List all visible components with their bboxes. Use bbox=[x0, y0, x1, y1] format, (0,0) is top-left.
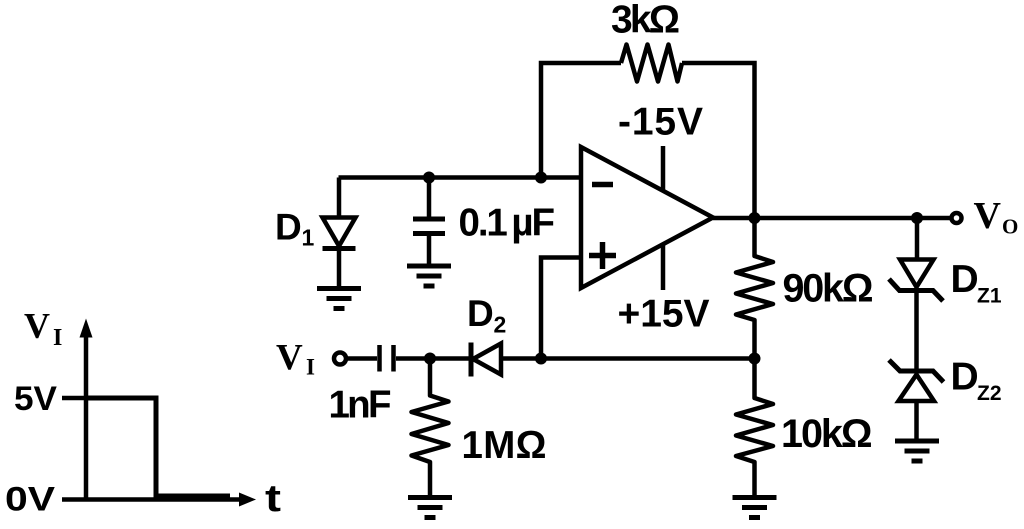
supply stub -15V bbox=[661, 146, 666, 191]
waveform V_I step bbox=[86, 398, 230, 496]
label V_I (input terminal) bbox=[276, 338, 315, 380]
wire terminal to capacitor C 1nF bbox=[347, 356, 378, 361]
capacitor 0.1µF top wire bbox=[427, 178, 432, 218]
supply stub +15V bbox=[661, 245, 666, 290]
svg-text:1: 1 bbox=[302, 225, 315, 251]
node D junction dot (divider) bbox=[749, 353, 761, 365]
node B junction dot bbox=[535, 353, 547, 365]
svg-text:V: V bbox=[974, 195, 1002, 237]
ground (10kΩ) bbox=[733, 498, 777, 518]
svg-text:D: D bbox=[467, 293, 494, 334]
junction dot zener branch bbox=[911, 212, 923, 224]
svg-text:-15V: -15V bbox=[618, 101, 703, 144]
svg-text:0V: 0V bbox=[5, 481, 55, 519]
svg-text:O: O bbox=[1002, 215, 1018, 239]
op-amp U1 triangle bbox=[581, 147, 713, 288]
svg-text:V: V bbox=[24, 306, 50, 346]
svg-text:5V: 5V bbox=[14, 380, 57, 418]
resistor 90kΩ bbox=[736, 218, 773, 359]
svg-text:D: D bbox=[951, 258, 979, 301]
diode D1 anode wire bbox=[337, 178, 342, 218]
wire inverting rail bbox=[339, 175, 582, 180]
svg-text:Z1: Z1 bbox=[977, 285, 1002, 308]
op-amp minus sign bbox=[592, 182, 613, 188]
5V tick bbox=[62, 396, 88, 401]
terminal V_O open circle bbox=[952, 213, 962, 223]
svg-text:I: I bbox=[53, 325, 62, 351]
zener DZ1 triangle bbox=[900, 260, 934, 288]
zener DZ2 bar with wings bbox=[889, 360, 944, 382]
ground (D1) bbox=[317, 289, 361, 309]
resistor 10kΩ bbox=[736, 359, 773, 498]
label V_I (graph) bbox=[24, 306, 62, 352]
junction dot capacitor/rail bbox=[423, 172, 435, 184]
label DZ1 bbox=[951, 258, 1002, 308]
svg-text:1nF: 1nF bbox=[329, 384, 392, 427]
resistor 3kΩ bbox=[621, 45, 682, 82]
ground (zener) bbox=[895, 441, 939, 461]
op-amp plus sign bbox=[589, 242, 616, 269]
svg-text:+15V: +15V bbox=[618, 293, 710, 336]
svg-text:D: D bbox=[275, 207, 302, 248]
wire feedback left vertical bbox=[541, 63, 621, 178]
svg-text:90kΩ: 90kΩ bbox=[783, 267, 874, 311]
svg-text:Z2: Z2 bbox=[977, 382, 1002, 405]
wire DZ2 to ground bbox=[914, 401, 919, 441]
svg-text:D: D bbox=[951, 356, 979, 399]
axis V (vertical) bbox=[80, 319, 93, 501]
svg-text:10kΩ: 10kΩ bbox=[781, 412, 873, 456]
wire node B to node C (feedback divider) bbox=[541, 356, 754, 361]
svg-text:t: t bbox=[265, 478, 281, 520]
capacitor 1nF bbox=[380, 345, 394, 372]
capacitor 0.1µF plates bbox=[413, 219, 445, 234]
svg-text:0.1 µF: 0.1 µF bbox=[459, 202, 556, 245]
svg-text:1MΩ: 1MΩ bbox=[462, 424, 547, 467]
junction dot feedback/rail bbox=[535, 172, 547, 184]
svg-text:V: V bbox=[276, 338, 303, 379]
ground (1MΩ) bbox=[408, 498, 452, 518]
wire DZ1 to DZ2 bbox=[914, 291, 919, 372]
wire zener branch top bbox=[915, 218, 920, 260]
wire op-amp output bbox=[713, 216, 951, 221]
wire capacitor to node A bbox=[396, 356, 470, 361]
terminal V_I open circle bbox=[334, 353, 346, 365]
svg-text:I: I bbox=[306, 355, 315, 380]
diode D2 (cathode bar) bbox=[469, 343, 474, 377]
wire feedback right vertical bbox=[682, 63, 755, 218]
label D1 bbox=[275, 207, 315, 251]
wire D2 to node B bbox=[501, 356, 541, 361]
wire node B up to op-amp + input bbox=[541, 258, 581, 359]
label DZ2 bbox=[951, 356, 1002, 406]
node A junction dot bbox=[424, 353, 436, 365]
label V_O bbox=[974, 195, 1019, 239]
label D2 bbox=[467, 293, 506, 338]
diode D1 triangle bbox=[323, 218, 356, 247]
axis t (horizontal) bbox=[62, 493, 256, 507]
svg-text:3kΩ: 3kΩ bbox=[611, 0, 680, 42]
ground (0.1µF) bbox=[407, 266, 451, 286]
resistor 1MΩ bbox=[412, 359, 449, 498]
node C junction dot (output) bbox=[749, 212, 761, 224]
svg-text:2: 2 bbox=[494, 312, 507, 338]
diode D2 triangle bbox=[473, 344, 501, 375]
diode D1 cathode bar bbox=[323, 246, 356, 251]
capacitor 0.1µF bottom wire bbox=[427, 236, 432, 266]
zener DZ2 triangle bbox=[899, 375, 935, 402]
wire D1 to ground bbox=[337, 249, 342, 289]
zener DZ1 bar with wings bbox=[889, 279, 943, 301]
